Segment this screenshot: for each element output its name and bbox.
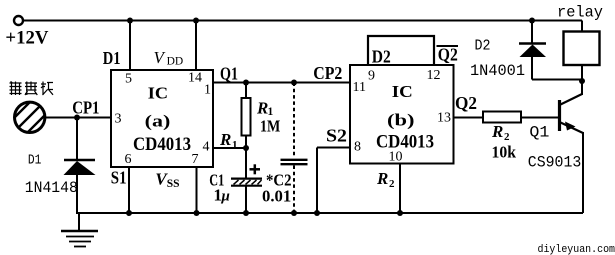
svg-text:R: R: [219, 130, 231, 149]
junction pin7 / rail: [194, 210, 200, 216]
label VSS: [155, 170, 179, 190]
svg-text:R: R: [256, 98, 268, 117]
svg-text:IC: IC: [148, 83, 168, 102]
svg-text:2: 2: [504, 131, 510, 143]
label 1u: [214, 185, 230, 204]
svg-text:CD4013: CD4013: [133, 135, 191, 155]
wire pin 4 to R1 bottom: [213, 147, 246, 149]
svg-text:R: R: [376, 169, 388, 188]
svg-text:Q2: Q2: [438, 44, 458, 64]
op IC U1b CD4013 box: [350, 65, 454, 164]
svg-text:CS9013: CS9013: [528, 154, 582, 172]
wire D1 cathode to ground rail: [76, 175, 78, 214]
label 觸摸板 (touch plate text): [10, 82, 54, 96]
svg-text:DD: DD: [167, 56, 184, 68]
junction top rail / D2: [529, 18, 535, 24]
label R1 value: [256, 98, 280, 135]
svg-text:R: R: [491, 122, 503, 141]
svg-text:14: 14: [188, 71, 202, 86]
svg-text:D2: D2: [475, 37, 491, 54]
svg-text:CP1: CP1: [72, 98, 99, 118]
svg-text:5: 5: [125, 72, 132, 87]
label R2 (R input of FF b): [376, 169, 395, 190]
svg-text:S1: S1: [111, 168, 127, 188]
resistor R2 10k: [483, 112, 558, 123]
svg-text:SS: SS: [167, 178, 180, 190]
diode D1 1N4148: [64, 160, 96, 175]
junction top rail / pin5: [127, 18, 133, 24]
svg-text:D1: D1: [28, 153, 42, 169]
svg-text:10k: 10k: [492, 143, 517, 162]
svg-text:1N4148: 1N4148: [25, 179, 78, 197]
wire D1 anode down: [76, 118, 78, 161]
svg-text:4: 4: [203, 140, 210, 155]
label R2 value: [491, 122, 516, 162]
svg-text:+12V: +12V: [5, 28, 48, 49]
svg-text:0.01: 0.01: [262, 187, 291, 206]
svg-text:D1: D1: [103, 48, 121, 68]
junction CP1 / D1: [74, 115, 80, 121]
junction relay / D2 / collector: [579, 78, 585, 84]
label R1 (R input of FF a): [219, 130, 238, 151]
op IC U1a CD4013 box: [111, 70, 213, 167]
svg-text:CD4013: CD4013: [376, 132, 434, 152]
svg-text:1: 1: [232, 139, 238, 151]
svg-text:7: 7: [192, 152, 199, 167]
svg-text:13: 13: [437, 111, 451, 126]
svg-text:(b): (b): [387, 111, 415, 130]
junction R1 / C1: [243, 145, 249, 151]
svg-text:S2: S2: [326, 126, 347, 146]
junction pin6 / rail: [126, 210, 132, 216]
label + of C1: [250, 164, 261, 174]
touch plate 觸摸板: [8, 98, 54, 146]
svg-text:relay: relay: [557, 4, 603, 22]
svg-text:6: 6: [125, 152, 132, 167]
wire pin14 to rail: [195, 21, 197, 71]
junction Q1 / C2: [291, 80, 297, 86]
power terminal +12V: [5, 16, 48, 49]
svg-text:1N4001: 1N4001: [470, 62, 525, 80]
wire Q1 output (pin1) to CP2 (pin11): [213, 82, 350, 84]
svg-text:3: 3: [115, 112, 122, 127]
label IC (a) CD4013: [133, 83, 191, 155]
svg-text:diyleyuan.com: diyleyuan.com: [538, 244, 615, 255]
wire pin5 to rail: [129, 21, 131, 71]
top rail wire: [23, 20, 582, 22]
svg-text:CP2: CP2: [313, 63, 342, 83]
svg-text:2: 2: [389, 178, 395, 190]
svg-text:11: 11: [353, 80, 366, 95]
bottom rail wire: [77, 212, 583, 214]
wire pin 6 to bottom rail: [128, 167, 130, 213]
wire pin 7 to bottom rail: [196, 167, 198, 213]
svg-text:1: 1: [204, 83, 211, 98]
svg-text:8: 8: [354, 140, 361, 155]
diode D2 1N4001: [519, 21, 582, 80]
junction top rail / pin14: [193, 18, 199, 24]
ground: [61, 213, 98, 247]
svg-text:μ: μ: [221, 188, 230, 204]
label IC (b) CD4013: [376, 82, 434, 152]
svg-text:1M: 1M: [260, 116, 280, 135]
label Q2bar: [437, 44, 459, 64]
junction Q1 / R1: [243, 80, 249, 86]
wire pin 10 to rail: [399, 164, 401, 214]
svg-text:Q1: Q1: [529, 124, 549, 142]
resistor R1 1M: [242, 83, 251, 149]
svg-text:12: 12: [427, 68, 441, 83]
capacitor C2 0.01 (optional, dashed): [281, 83, 308, 214]
junction C1 / rail: [243, 210, 249, 216]
svg-text:D2: D2: [372, 47, 391, 67]
wire Q2 (pin13) to R2: [454, 117, 484, 119]
junction S2 / rail: [314, 210, 320, 216]
junction C2 / rail: [291, 210, 297, 216]
svg-text:Q1: Q1: [220, 63, 238, 83]
wire S2 to pin 8: [317, 148, 350, 214]
relay coil: [564, 21, 600, 96]
svg-text:9: 9: [368, 69, 375, 84]
capacitor C1 1u electrolytic: [231, 148, 262, 213]
label VDD: [154, 48, 184, 68]
svg-text:IC: IC: [392, 82, 413, 101]
transistor Q1 CS9013: [560, 94, 584, 213]
wire CP1: touch plate to pin 3: [44, 117, 111, 119]
svg-text:Q2: Q2: [455, 93, 477, 113]
svg-text:(a): (a): [145, 112, 171, 131]
feedback loop wire Q2bar (pin12) to D2 (pin9): [368, 36, 434, 65]
junction pin10 / rail: [397, 210, 403, 216]
